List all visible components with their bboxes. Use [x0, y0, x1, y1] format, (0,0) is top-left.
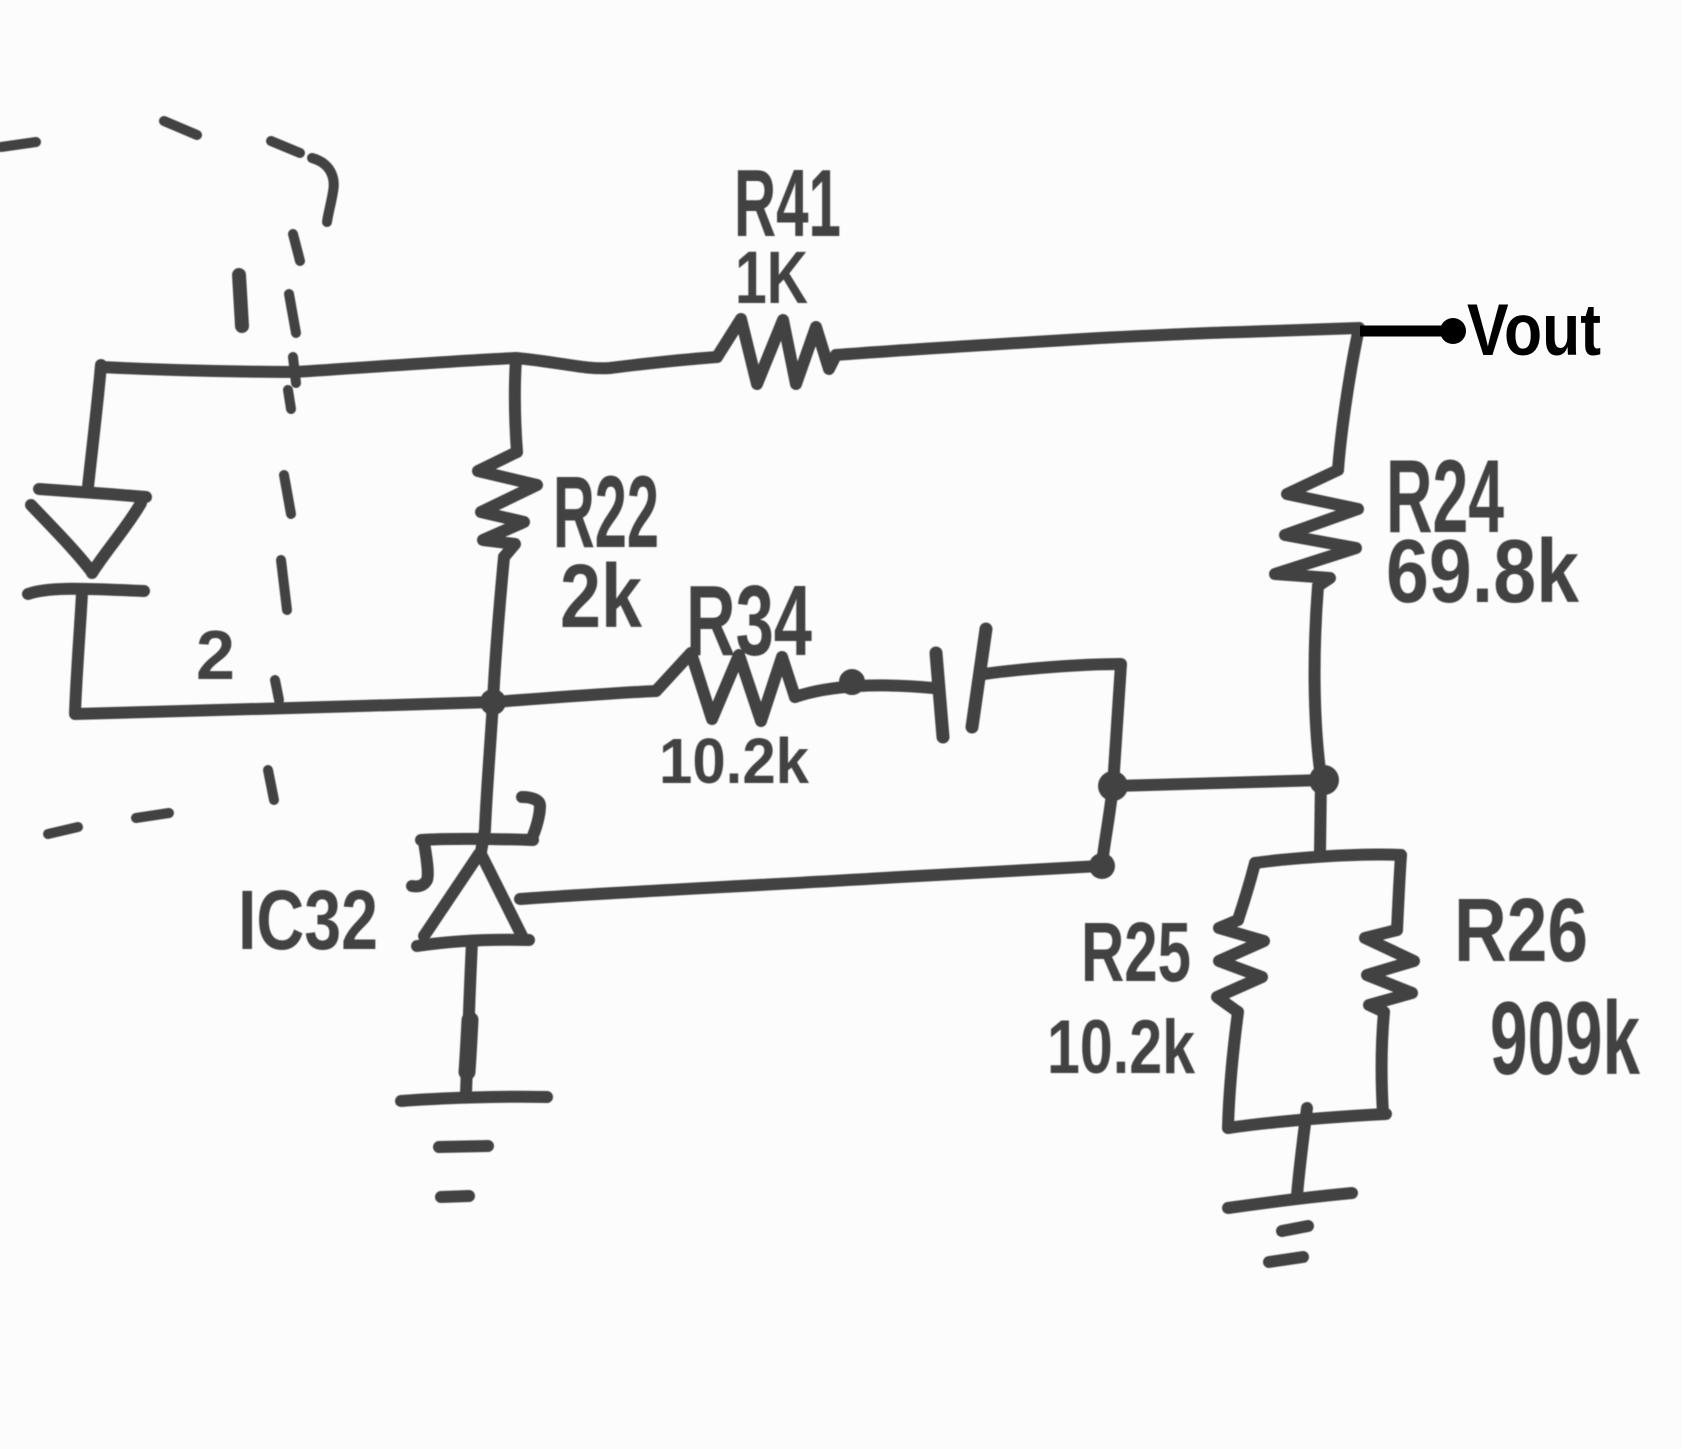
wire: left drop to photodiode [88, 365, 101, 487]
node B junction (R24 bottom) [1309, 765, 1339, 795]
value 909k [1490, 981, 1640, 1097]
photodiode D1 [28, 489, 146, 594]
ground (under IC32) [401, 1097, 547, 1197]
svg-text:Vout: Vout [1467, 290, 1601, 371]
svg-text:909k: 909k [1490, 981, 1640, 1097]
svg-text:R26: R26 [1454, 881, 1588, 981]
wire: node A to node B [1113, 780, 1324, 786]
Vout tap line [1360, 326, 1444, 337]
pin 1 label [239, 275, 242, 326]
label IC32 [238, 873, 378, 967]
value 10.2k [1047, 1005, 1196, 1090]
wire: IC32 ref to lower node [520, 866, 1100, 899]
wire: photodiode cathode down and right to node [75, 593, 493, 714]
wire: R22 bottom to node [493, 557, 504, 702]
value 10.2k [659, 725, 809, 797]
pin 2 label [196, 616, 235, 694]
capacitor C1 [936, 629, 986, 737]
wire: right branch down to R26 [1397, 855, 1401, 930]
wire: capacitor to corner and down to node A [984, 664, 1121, 786]
label R25 [1081, 905, 1191, 999]
wire: node A down to lower wire [1102, 786, 1113, 864]
resistor R25 [1217, 920, 1264, 1012]
ground (bottom-right) [1228, 1193, 1352, 1262]
wire: R34 to capacitor [795, 675, 933, 697]
wire: node down to IC32 cathode [480, 702, 493, 857]
wire: parallel block bottom bar [1228, 1114, 1386, 1128]
svg-text:R34: R34 [686, 565, 812, 677]
dashed package outline (photodiode module) [1, 121, 334, 834]
resistor R22 [478, 452, 537, 557]
svg-text:2: 2 [196, 616, 235, 694]
svg-text:2k: 2k [560, 547, 643, 647]
node A junction [1098, 771, 1128, 801]
wire: IC32 anode stub to ground [466, 942, 472, 1093]
svg-text:10.2k: 10.2k [1047, 1005, 1196, 1090]
resistor R34 [656, 653, 795, 721]
wire: ground stub bottom-right [1297, 1108, 1307, 1196]
net label Vout [1467, 290, 1601, 371]
value 1K [735, 236, 808, 319]
wire: R26 bottom to bottom bar [1382, 1012, 1384, 1114]
label R24 [1386, 439, 1504, 555]
label R22 [553, 455, 659, 569]
svg-text:69.8k: 69.8k [1386, 522, 1580, 622]
resistor R24 [1275, 470, 1358, 586]
wire: node B to parallel block top [1320, 778, 1321, 852]
wire: top net from photodiode anode to Vout [101, 328, 1359, 372]
label R41 [734, 150, 841, 257]
shunt regulator IC32 [412, 797, 540, 946]
resistor R26 [1365, 930, 1414, 1012]
wire: parallel block top bar [1255, 855, 1401, 863]
svg-text:1K: 1K [735, 236, 808, 319]
svg-text:IC32: IC32 [238, 873, 378, 967]
wire: left branch down to R25 [1238, 863, 1255, 920]
svg-text:10.2k: 10.2k [659, 725, 809, 797]
value 2k [560, 547, 643, 647]
node junction (R22 / photodiode / R34 / IC32) [480, 689, 506, 715]
svg-text:R25: R25 [1081, 905, 1191, 999]
wire: Vout corner down to R24 [1338, 328, 1359, 470]
label R34 [686, 565, 812, 677]
wire: R25 bottom to bottom bar [1228, 1012, 1238, 1128]
value 69.8k [1386, 522, 1580, 622]
node junction lower [1089, 853, 1115, 879]
resistor R41 [717, 319, 836, 384]
label R26 [1454, 881, 1588, 981]
wire: node to R34 [493, 691, 656, 702]
wire: R24 bottom to node B [1315, 586, 1321, 778]
wire: R22 top connection [515, 358, 517, 452]
Vout node dot [1440, 318, 1466, 344]
